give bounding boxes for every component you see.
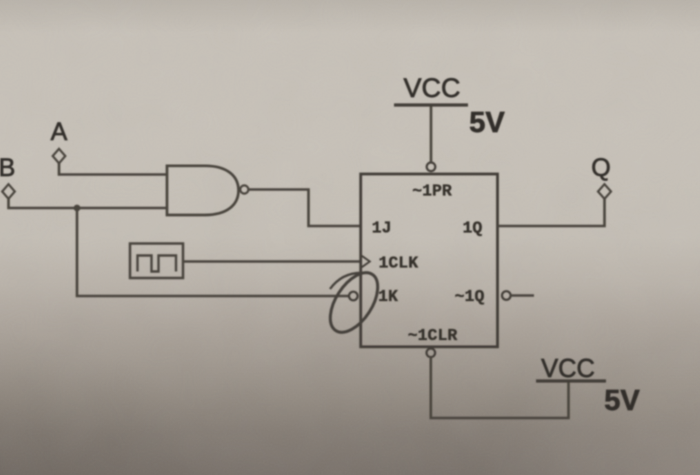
pin 1CLK edge-trigger triangle	[362, 256, 370, 267]
svg-text:5V: 5V	[604, 385, 640, 417]
wire B to NAND bottom input	[9, 199, 168, 208]
NAND gate U1 body	[167, 166, 239, 215]
clock source V1 box	[130, 244, 183, 279]
wire clock to 1CLK input	[183, 260, 360, 263]
terminal B diamond	[2, 184, 15, 199]
wire VCC to ~1PR	[430, 106, 433, 162]
svg-text:B: B	[0, 154, 15, 182]
terminal A diamond	[53, 149, 66, 164]
svg-text:1CLK: 1CLK	[378, 254, 418, 273]
svg-text:~1CLR: ~1CLR	[408, 326, 458, 345]
svg-text:1J: 1J	[372, 219, 392, 238]
wire junction down to 1K input	[77, 208, 349, 296]
terminal Q diamond	[598, 184, 611, 199]
wire ~1CLR to VCC bottom	[431, 357, 569, 418]
NAND gate U1 output bubble	[240, 185, 248, 193]
wire A to NAND top input	[59, 164, 167, 175]
VCC bottom power bar	[536, 379, 606, 382]
wire NAND output to 1J input	[249, 190, 361, 227]
svg-text:1Q: 1Q	[462, 219, 482, 238]
VCC top power bar	[394, 103, 468, 106]
svg-text:Q: Q	[591, 154, 610, 182]
hand-drawn pen overlap stroke	[330, 273, 366, 289]
flip-flop U2 box	[361, 174, 498, 347]
svg-text:5V: 5V	[469, 107, 505, 139]
svg-text:A: A	[51, 118, 68, 146]
junction node on B wire	[74, 205, 81, 212]
svg-text:VCC: VCC	[403, 73, 460, 103]
svg-text:VCC: VCC	[541, 355, 595, 383]
pin ~1CLR terminal circle	[427, 349, 436, 358]
pin ~1Q inversion bubble	[502, 291, 511, 300]
wire 1Q to terminal Q	[498, 199, 605, 226]
svg-text:1K: 1K	[378, 287, 398, 306]
stub wire on ~1Q	[511, 294, 534, 297]
svg-text:~1Q: ~1Q	[455, 287, 485, 306]
pin ~1PR terminal circle	[427, 163, 436, 172]
svg-text:~1PR: ~1PR	[412, 182, 452, 201]
pin 1K inversion bubble	[349, 292, 358, 301]
hand-drawn annotation oval around 1K input	[321, 265, 388, 341]
clock source square-wave symbol	[138, 256, 177, 272]
